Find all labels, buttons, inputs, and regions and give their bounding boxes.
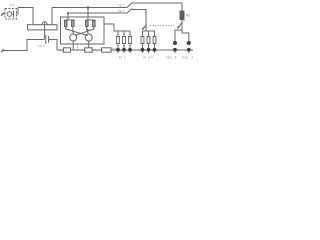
wire branch 5 (148, 31, 150, 37)
stub tap 5 (148, 52, 150, 54)
wire cross coupling A (66, 27, 88, 36)
probe arrow B2 (177, 23, 181, 28)
switch Vp1 (127, 3, 132, 8)
speaker box (28, 25, 58, 30)
wire staircase up (51, 8, 53, 25)
wire from earphone up (17, 8, 19, 15)
transistor T2 (85, 34, 92, 41)
stub pad 1 (174, 52, 176, 54)
wire inner rail right (86, 19, 96, 21)
arrowhead B1 (142, 27, 145, 30)
link dashed box bottom (77, 45, 79, 50)
wire cross coupling B (75, 27, 94, 36)
input terminal tick (1, 13, 4, 17)
svg-text:Vp 2: Vp 2 (118, 9, 125, 13)
svg-text:kl. 2-4: kl. 2-4 (144, 56, 153, 60)
resistor R2 (72, 21, 75, 27)
svg-text:kl. 1: kl. 1 (119, 56, 125, 60)
wire branch 3 (129, 31, 131, 37)
wire staircase down (18, 8, 33, 25)
resistor Ra3 (129, 37, 132, 44)
svg-text:4,5 V: 4,5 V (38, 44, 45, 48)
resistor Ra2 (123, 37, 126, 44)
resistor R4 (93, 21, 96, 27)
resistor Ra1 (117, 37, 120, 44)
node contact pad 1 (173, 48, 177, 52)
wire second rail (68, 13, 127, 20)
wire hump crossing (42, 22, 47, 25)
wire battery to bottom rail (49, 40, 64, 51)
contact circle K2 (187, 41, 191, 45)
wire group A rail (114, 30, 130, 32)
wire branch 1 (117, 31, 119, 37)
wire group B rail (143, 30, 155, 32)
wire emitter T2 (88, 41, 90, 48)
node rail2 junction (67, 12, 69, 14)
probe arrow B1 (142, 24, 146, 29)
wire base T1 (72, 27, 74, 34)
svg-text:R5: R5 (59, 48, 63, 52)
resistor R1 (65, 21, 68, 27)
svg-text:tlač. 1: tlač. 1 (166, 56, 178, 60)
stub tap 2 (123, 52, 125, 54)
wire emitter T1 (72, 41, 74, 50)
svg-text:o: o (184, 19, 186, 23)
wire base T2 (87, 27, 88, 34)
mechanical link dashed (150, 25, 176, 27)
wire branch 6 (154, 31, 156, 37)
wire bottom rail (111, 49, 193, 51)
earphone Tl dashed box (5, 9, 17, 20)
node supply junction (87, 6, 89, 8)
wire R8 down (181, 20, 183, 31)
stub tap 4 (142, 52, 144, 54)
wire contact left (175, 30, 182, 41)
stub tap 6 (154, 52, 156, 54)
earphone pole piece (13, 11, 15, 18)
svg-text:Vp 1: Vp 1 (118, 3, 125, 7)
contact circle K1 (173, 41, 177, 45)
node tap 6 (153, 48, 157, 52)
resistor Rb3 (153, 37, 156, 44)
switch Vp2 (127, 9, 132, 13)
wire top rail (52, 7, 127, 9)
wire bottom left (2, 40, 45, 51)
wire box output (104, 24, 114, 31)
svg-text:R8: R8 (186, 14, 190, 18)
ground terminal tick (1, 49, 4, 53)
wire feed into box (87, 8, 89, 21)
wire (92, 49, 101, 51)
resistor R6 (85, 48, 92, 52)
node tap 4 (141, 48, 145, 52)
svg-text:R3: R3 (80, 24, 84, 28)
svg-text:tlač. 2: tlač. 2 (182, 56, 194, 60)
resistor R7 (102, 48, 112, 52)
resistor R8 (180, 11, 184, 20)
svg-text:R6: R6 (94, 48, 98, 52)
resistor Rb2 (147, 37, 150, 44)
node tap 1 (116, 48, 120, 52)
wire branch 4 (142, 31, 144, 37)
node contact pad 2 (187, 48, 191, 52)
node coupling junction (87, 29, 89, 31)
battery plate 1 (45, 35, 47, 44)
stub pad 2 (188, 52, 190, 54)
wire branch 2 (123, 31, 125, 37)
stub tap 1 (117, 52, 119, 54)
node tap 5 (147, 48, 151, 52)
resistor Rb1 (141, 37, 144, 44)
node tap 3 (128, 48, 132, 52)
earphone circle (7, 12, 12, 17)
resistor R3 (86, 21, 89, 27)
svg-text:Tl 4: Tl 4 (9, 4, 15, 8)
transistor T1 (70, 34, 77, 41)
svg-text:R7: R7 (112, 47, 116, 51)
arrowhead B2 (177, 26, 180, 29)
stub tap 3 (129, 52, 131, 54)
node tap 2 (122, 48, 126, 52)
wire (71, 49, 85, 51)
wire after switch Vp2 (132, 10, 147, 32)
resistor R5 (64, 48, 71, 52)
wire inner rail left (65, 19, 75, 21)
wire input to earphone (2, 13, 6, 15)
box multivibrator (61, 17, 105, 44)
wire contact right (182, 30, 189, 41)
wire after switch Vp1 (132, 3, 183, 11)
wire vertical under hump (44, 23, 46, 40)
battery plate 2 (48, 36, 50, 43)
